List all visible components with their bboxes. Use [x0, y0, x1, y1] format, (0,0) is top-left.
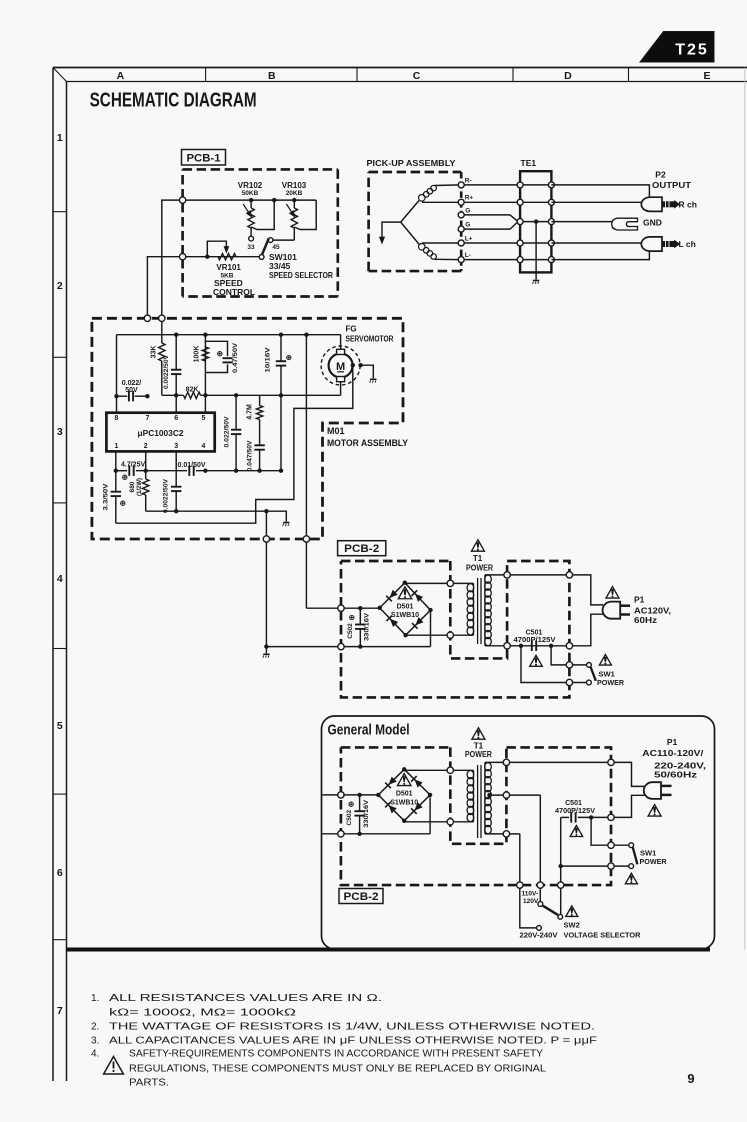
PCB-2 dashed border — [341, 560, 450, 563]
svg-text:220V-240V: 220V-240V — [520, 933, 558, 940]
capacitor 0.022/50V (second) — [235, 395, 237, 429]
svg-text:OUTPUT: OUTPUT — [652, 180, 692, 190]
wire TE1 to L ch center — [551, 242, 641, 244]
resistor 82K — [184, 392, 201, 398]
wire: PCB-1 lower rail — [183, 256, 260, 258]
wire: pin1 to motor right terminal — [116, 365, 353, 523]
svg-text:33K: 33K — [151, 346, 158, 359]
svg-text:10/16V: 10/16V — [265, 347, 272, 373]
svg-text:0.0022/50V: 0.0022/50V — [163, 478, 170, 513]
svg-text:2.: 2. — [91, 1022, 99, 1033]
PCB-1 dashed border — [183, 168, 338, 171]
svg-text:680: 680 — [129, 481, 136, 492]
svg-text:PCB-2: PCB-2 — [344, 543, 379, 555]
notes — [91, 993, 597, 1089]
svg-text:kΩ= 1000Ω, MΩ= 1000kΩ: kΩ= 1000Ω, MΩ= 1000kΩ — [109, 1008, 297, 1019]
GM border nodes — [338, 792, 344, 798]
svg-text:5: 5 — [202, 415, 206, 422]
svg-text:20KB: 20KB — [286, 190, 303, 197]
svg-text:G: G — [465, 222, 470, 229]
wire: PCB-1 top rail — [183, 199, 317, 201]
svg-text:0.022/50V: 0.022/50V — [223, 416, 230, 448]
GM switch SW1 POWER — [629, 843, 634, 848]
svg-text:L-: L- — [465, 252, 471, 259]
svg-text:M01: M01 — [327, 426, 345, 436]
GM T1 POWER labels — [472, 728, 485, 739]
T25 page tag — [640, 32, 714, 63]
svg-text:SCHEMATIC DIAGRAM: SCHEMATIC DIAGRAM — [90, 90, 257, 112]
svg-text:7: 7 — [57, 1005, 63, 1017]
GM capacitor C501 4700P/125V — [561, 816, 569, 818]
svg-text:50/60Hz: 50/60Hz — [654, 770, 697, 780]
PCB-2 label — [338, 541, 386, 556]
capacitor 10/16V — [280, 335, 282, 362]
svg-text:VR103: VR103 — [282, 181, 307, 190]
svg-text:P2: P2 — [655, 170, 666, 180]
wire: bridge bottom to transformer — [406, 634, 451, 636]
capacitor 0.0022/50V (pin6) — [175, 335, 177, 370]
svg-text:General Model: General Model — [328, 723, 410, 739]
switch SW101 — [259, 239, 333, 281]
svg-text:L ch: L ch — [679, 239, 696, 249]
svg-text:ALL RESISTANCES VALUES ARE IN: ALL RESISTANCES VALUES ARE IN Ω. — [109, 993, 382, 1004]
GM wire: C501 right to SW1 upper — [591, 817, 629, 845]
ground stub — [266, 511, 286, 521]
wire down to PCB-2 (left) — [265, 511, 267, 646]
svg-text:VR102: VR102 — [238, 181, 263, 190]
wire TE1 to L ch shield — [551, 251, 649, 260]
wire TE1 to R ch shield — [551, 185, 649, 197]
GM wire: winding bottom down to 220V contact — [520, 834, 537, 928]
svg-text:μPC1003C2: μPC1003C2 — [138, 429, 185, 438]
TE1 ground — [534, 219, 538, 223]
svg-text:PCB-2: PCB-2 — [344, 891, 379, 903]
svg-text:M: M — [336, 361, 345, 373]
svg-text:4.: 4. — [91, 1049, 99, 1060]
cartridge coil L — [401, 222, 462, 260]
notes warning triangle — [104, 1057, 124, 1075]
capacitor 0.47/50V loop — [205, 341, 227, 356]
svg-text:C501: C501 — [565, 800, 582, 807]
wire: rail down to PCB-2 (right) — [305, 335, 307, 609]
svg-text:SW2: SW2 — [564, 921, 580, 930]
svg-text:1.: 1. — [91, 993, 99, 1004]
svg-text:P1: P1 — [667, 737, 678, 747]
wire: C501 left to SW1 lower — [521, 646, 587, 683]
svg-text:C501: C501 — [526, 630, 543, 637]
svg-text:PARTS.: PARTS. — [129, 1078, 169, 1089]
svg-text:T1: T1 — [473, 554, 483, 563]
RCA plug L ch — [641, 237, 696, 251]
svg-text:R+: R+ — [465, 195, 474, 202]
capacitor 0.0022/50V (pin3) — [175, 451, 177, 486]
GM PCB-2 label — [339, 889, 383, 904]
svg-text:SPEED SELECTOR: SPEED SELECTOR — [269, 270, 333, 280]
svg-text:50KB: 50KB — [242, 190, 259, 197]
resistor 100K (pin5) — [204, 335, 206, 413]
svg-text:4.7M: 4.7M — [247, 404, 254, 420]
svg-text:100K: 100K — [194, 346, 201, 363]
svg-text:G: G — [465, 207, 470, 214]
svg-text:POWER: POWER — [640, 857, 668, 866]
svg-text:C502: C502 — [347, 623, 354, 639]
svg-text:PICK-UP ASSEMBLY: PICK-UP ASSEMBLY — [367, 158, 456, 168]
capacitor C501 4700P/125V — [531, 641, 533, 651]
capacitor 0.022/50V (pin8-pin7) — [116, 335, 118, 413]
IC U1 uPC1003C2 — [106, 413, 214, 452]
GM wire bridge bottom to transformer — [404, 821, 473, 822]
svg-text:0.01/50V: 0.01/50V — [178, 462, 206, 469]
svg-text:60Hz: 60Hz — [634, 615, 657, 625]
svg-text:TE1: TE1 — [521, 158, 537, 168]
svg-text:SERVOMOTOR: SERVOMOTOR — [346, 335, 394, 344]
svg-text:S1WB10: S1WB10 — [390, 799, 418, 806]
svg-text:330/16V: 330/16V — [364, 612, 371, 641]
wire: 680/pin3 junction row — [146, 510, 267, 512]
bridge rectifier D501 S1WB10 — [378, 581, 433, 638]
wire: secondary top to P1 — [569, 575, 603, 605]
capacitor 0.01/50V — [188, 466, 190, 476]
svg-text:P1: P1 — [634, 595, 645, 605]
RCA plug R ch — [641, 197, 697, 211]
svg-text:ALL CAPACITANCES VALUES ARE IN: ALL CAPACITANCES VALUES ARE IN μF UNLESS… — [109, 1036, 597, 1047]
G merge wires — [464, 215, 518, 222]
pick-up terminals — [458, 182, 464, 188]
GM wire: tap down to 110V contact — [539, 795, 541, 901]
potentiometer VR102 — [238, 181, 277, 251]
GM transformer tap — [487, 793, 491, 797]
svg-text:8: 8 — [115, 415, 119, 422]
svg-text:D: D — [564, 70, 572, 82]
GM transformer T1 — [467, 762, 611, 838]
svg-text:1: 1 — [57, 132, 63, 144]
AC plug P1 — [603, 602, 630, 619]
svg-text:AC120V,: AC120V, — [634, 606, 671, 616]
PCB-1 label — [182, 150, 226, 166]
svg-text:5: 5 — [57, 720, 63, 732]
capacitor 4.7/25V — [128, 466, 130, 476]
GM wire: C501 left down to SW2 common — [560, 817, 562, 914]
svg-text:2: 2 — [144, 443, 148, 450]
GM AC plug P1 — [644, 782, 672, 799]
svg-text:L+: L+ — [465, 235, 473, 242]
svg-text:A: A — [117, 70, 125, 82]
svg-text:0.0022/50V: 0.0022/50V — [163, 354, 170, 389]
svg-text:CONTROL: CONTROL — [213, 287, 255, 297]
svg-text:6: 6 — [174, 415, 178, 422]
svg-text:0.47/50V: 0.47/50V — [232, 342, 239, 373]
resistor 4.7M + capacitor 0.047/50V branch — [259, 395, 261, 405]
svg-text:POWER: POWER — [465, 750, 492, 759]
svg-text:D501: D501 — [397, 603, 414, 610]
svg-text:50V: 50V — [125, 387, 138, 394]
svg-text:330/16V: 330/16V — [363, 799, 370, 828]
svg-text:2: 2 — [57, 280, 63, 292]
wire: DC- row — [341, 646, 431, 648]
svg-text:7: 7 — [145, 415, 149, 422]
resistor 33K — [161, 318, 163, 343]
svg-text:110V-: 110V- — [522, 891, 539, 898]
svg-text:S1WB10: S1WB10 — [391, 612, 419, 619]
svg-text:VOLTAGE SELECTOR: VOLTAGE SELECTOR — [564, 931, 642, 940]
svg-text:R-: R- — [465, 177, 472, 184]
svg-text:6: 6 — [57, 867, 63, 879]
potentiometer VR103 — [268, 181, 316, 251]
svg-text:4700P/125V: 4700P/125V — [514, 637, 556, 644]
svg-text:C502: C502 — [346, 810, 353, 826]
GM wire: C501 right to P1 lower — [611, 795, 646, 817]
GM wire: SW1 lower row — [561, 865, 629, 867]
stylus arrow — [382, 222, 401, 239]
svg-text:45: 45 — [272, 244, 280, 251]
PCB-2 border nodes — [338, 605, 344, 611]
wire TE1 to R ch center — [551, 201, 641, 203]
wire: DC+ row — [341, 607, 380, 609]
potentiometer VR101 — [205, 241, 255, 297]
GM capacitor C502 330/16V — [359, 795, 361, 811]
svg-text:VR101: VR101 — [216, 263, 241, 272]
svg-text:SAFETY-REQUIREMENTS COMPONENTS: SAFETY-REQUIREMENTS COMPONENTS IN ACCORD… — [129, 1049, 543, 1060]
GND spade lug — [612, 218, 662, 231]
svg-text:4: 4 — [202, 443, 206, 450]
wire: bridge top to transformer — [405, 582, 451, 585]
svg-text:3: 3 — [57, 426, 63, 438]
General Model rounded border — [322, 716, 715, 949]
svg-text:4700P/125V: 4700P/125V — [555, 808, 595, 815]
wire to motor assembly (pin7 feed) — [147, 257, 182, 319]
svg-text:1: 1 — [115, 443, 119, 450]
bottom wire with caps 4.7/25V and 0.01/50V — [116, 470, 127, 472]
top rail wire — [117, 334, 341, 336]
svg-text:T25: T25 — [675, 42, 709, 59]
svg-text:FG: FG — [346, 325, 357, 334]
transformer T1 — [467, 575, 569, 646]
svg-text:82K: 82K — [186, 387, 199, 394]
svg-text:POWER: POWER — [597, 678, 625, 687]
FG servomotor — [321, 325, 394, 396]
wires pick-up to TE1 — [464, 184, 548, 186]
GM wire: winding top to P1 — [611, 762, 646, 786]
wire: C501 right to SW1 upper — [551, 646, 587, 665]
svg-text:R ch: R ch — [679, 200, 697, 210]
svg-text:9: 9 — [687, 1071, 694, 1086]
svg-text:4.7/25V: 4.7/25V — [121, 462, 145, 469]
capacitor C502 330/16V — [359, 608, 361, 624]
pick-up assembly dashed border — [369, 171, 462, 174]
svg-text:3.: 3. — [91, 1036, 99, 1047]
svg-text:120V: 120V — [523, 898, 539, 905]
resistor 680 (1/2W) (pin2) — [145, 451, 147, 479]
switch SW1 POWER — [587, 663, 592, 668]
GM wire bridge top to transformer — [404, 769, 473, 770]
svg-text:3.3/50V: 3.3/50V — [102, 483, 109, 511]
GM voltage selector SW2 — [538, 902, 543, 907]
svg-text:C: C — [413, 70, 421, 82]
svg-text:AC110-120V/: AC110-120V/ — [642, 748, 704, 758]
GM input wires — [322, 794, 378, 796]
svg-text:E: E — [703, 70, 710, 82]
svg-text:33: 33 — [247, 244, 255, 251]
General Model dashed border — [341, 746, 450, 749]
cartridge coil R — [401, 185, 462, 222]
wire: secondary bottom to P1 — [569, 614, 603, 646]
capacitor 3.3/50V (pin1) — [115, 451, 117, 491]
T1 POWER labels — [471, 540, 484, 551]
svg-text:GND: GND — [643, 218, 662, 228]
svg-text:PCB-1: PCB-1 — [187, 153, 221, 165]
svg-text:4: 4 — [57, 573, 63, 585]
svg-text:T1: T1 — [474, 741, 484, 750]
svg-text:B: B — [268, 70, 276, 82]
svg-text:0.022/: 0.022/ — [122, 380, 142, 387]
M01 motor assembly dashed border — [92, 318, 403, 539]
wire B (lower horizontal) — [162, 394, 184, 396]
svg-text:THE WATTAGE OF RESISTORS IS 1/: THE WATTAGE OF RESISTORS IS 1/4W, UNLESS… — [109, 1022, 595, 1033]
svg-text:D501: D501 — [396, 790, 413, 797]
svg-text:POWER: POWER — [466, 563, 493, 572]
svg-text:3: 3 — [174, 443, 178, 450]
svg-text:MOTOR ASSEMBLY: MOTOR ASSEMBLY — [327, 438, 408, 448]
svg-text:REGULATIONS, THESE COMPONENTS: REGULATIONS, THESE COMPONENTS MUST ONLY … — [129, 1064, 546, 1075]
GM bridge rectifier D501 S1WB10 — [376, 767, 432, 823]
wire to motor assembly (33K feed) — [162, 200, 183, 318]
feed wire to bridge + ground — [266, 646, 341, 648]
svg-text:(1/2W): (1/2W) — [137, 478, 143, 496]
svg-text:0.047/50V: 0.047/50V — [247, 440, 254, 472]
wire TE1 to GND lug — [551, 221, 613, 223]
border nodes — [144, 315, 150, 321]
motor ground — [363, 365, 374, 378]
